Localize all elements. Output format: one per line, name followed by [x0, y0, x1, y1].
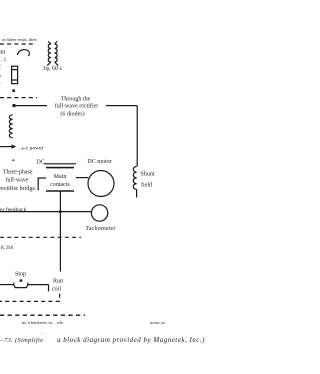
circuit breaker CB: [17, 50, 29, 56]
svg-text:l . i: l . i: [0, 57, 6, 63]
wire from contacts down to run coil: [59, 191, 61, 272]
svg-text:DC motor: DC motor: [87, 159, 111, 165]
svg-text:contacts: contacts: [50, 182, 70, 188]
inductor choke L1: [9, 115, 12, 138]
wire corner down to shunt field: [136, 106, 138, 167]
clipped text fragments left edge: [0, 50, 6, 86]
faint printthrough text: [2, 37, 166, 325]
stray mark: [12, 159, 14, 161]
dashed enclosure top edge: [0, 43, 33, 45]
svg-text:K 2S0: K 2S0: [1, 246, 14, 251]
svg-text:Three-phase: Three-phase: [3, 169, 33, 175]
svg-text:Tachometer: Tachometer: [85, 226, 115, 232]
svg-text:er feedback: er feedback: [0, 206, 27, 213]
svg-text:—73. (Simplifie: —73. (Simplifie: [0, 337, 43, 344]
svg-text:coil: coil: [52, 286, 61, 292]
svg-text:full-wave rectifier: full-wave rectifier: [55, 103, 98, 110]
svg-text:a block diagram provided by Ma: a block diagram provided by Magnetek, In…: [57, 336, 205, 344]
svg-text:ra sheer resin, then: ra sheer resin, then: [2, 37, 37, 43]
svg-text:rectifier bridge.: rectifier bridge.: [0, 185, 37, 192]
svg-text:ani: ani: [0, 50, 6, 56]
svg-text:Stop: Stop: [15, 271, 26, 277]
caption: [0, 332, 205, 344]
svg-text:· ·’: · ·’: [40, 332, 45, 337]
svg-text:field: field: [141, 182, 152, 189]
svg-text:no a benkeew tu. . wle: no a benkeew tu. . wle: [22, 320, 63, 325]
wire contacts to motor: [76, 177, 88, 179]
svg-text:C: C: [0, 65, 1, 71]
svg-text:Main: Main: [54, 174, 67, 180]
svg-text:(6 diodes): (6 diodes): [60, 111, 84, 118]
fuse F1: [12, 66, 18, 83]
motor M1: [88, 171, 114, 197]
wire stub to run coil: [44, 285, 49, 292]
wire dc bus with start dot: [12, 104, 15, 107]
svg-text:a,: a,: [0, 72, 2, 78]
wire dc to motor: [44, 163, 76, 165]
rectifier bridge label (clipped dashed box): [0, 169, 37, 192]
svg-text:, a-c power: , a-c power: [19, 145, 44, 151]
wire with arrow, a-c power: [0, 146, 12, 148]
svg-text:uona. nt: uona. nt: [150, 320, 166, 325]
svg-text:Through the: Through the: [61, 96, 91, 102]
relay coil Run: [52, 279, 63, 293]
contactor box Main contacts: [46, 167, 74, 169]
label Through the full-wave rectifier (6 diodes): [55, 96, 98, 117]
transformer T1: [47, 41, 58, 65]
junction dot: [59, 210, 62, 213]
wire tach feedback: [0, 211, 91, 213]
svg-text:L: L: [0, 79, 1, 85]
tachometer G1: [91, 205, 107, 221]
pushbutton Stop (NC): [0, 279, 44, 287]
dashed enclosure lower edge: [0, 97, 37, 99]
svg-text:3φ, 60 s: 3φ, 60 s: [43, 66, 63, 72]
svg-text:Run: Run: [53, 279, 63, 285]
svg-text:full-wave: full-wave: [6, 176, 29, 183]
shunt field coil: [133, 167, 136, 198]
svg-text:DC: DC: [37, 159, 45, 165]
junction dot: [12, 89, 15, 92]
dashed board boundary: [0, 236, 81, 238]
svg-text:Shunt: Shunt: [141, 172, 155, 178]
wire from bridge to main contacts: [38, 178, 46, 190]
dashed wire from run coil down and left: [0, 294, 60, 302]
dashed boundary bottom: [0, 314, 85, 316]
